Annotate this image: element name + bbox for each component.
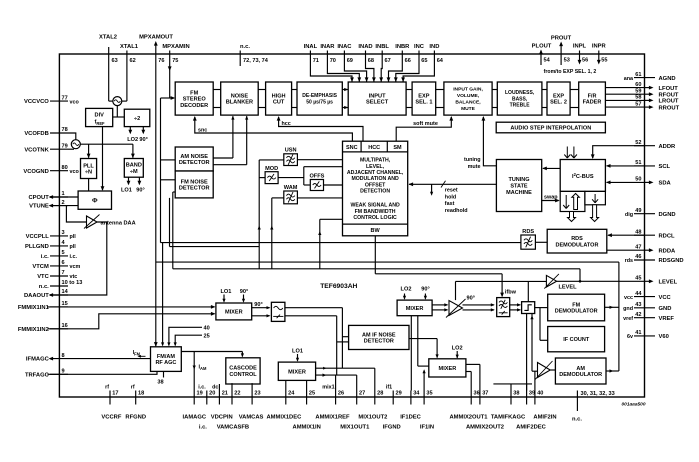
pin 24 bottom lead bbox=[286, 390, 295, 404]
svg-text:6: 6 bbox=[62, 260, 65, 266]
wire AMIF2DEC pin 39 to limiter bottom bbox=[526, 314, 528, 391]
svg-text:readhold: readhold bbox=[445, 208, 468, 214]
svg-text:FM NOISE: FM NOISE bbox=[181, 179, 208, 185]
filter WAM bbox=[284, 185, 298, 204]
block BAND divider bbox=[124, 159, 143, 178]
pin reference stub 38 at AGC bottom bbox=[157, 371, 163, 385]
svg-text:SEL. 2: SEL. 2 bbox=[550, 100, 567, 106]
svg-text:43: 43 bbox=[635, 302, 641, 308]
pin 29 bottom lead bbox=[386, 385, 402, 405]
svg-text:8: 8 bbox=[62, 353, 65, 359]
svg-text:EXP: EXP bbox=[553, 93, 564, 99]
svg-text:FM: FM bbox=[572, 302, 580, 308]
svg-text:AMMIX2OUT1: AMMIX2OUT1 bbox=[449, 415, 488, 421]
svg-text:INAR: INAR bbox=[320, 44, 335, 50]
svg-text:MUTE: MUTE bbox=[461, 106, 476, 112]
wire swap from TSM to I2C bbox=[542, 195, 560, 203]
svg-text:LO2: LO2 bbox=[127, 137, 138, 143]
pin 47 RDDA bbox=[635, 244, 676, 254]
wire F/R fader to audio outputs bbox=[605, 88, 644, 108]
svg-text:90°: 90° bbox=[136, 188, 144, 194]
svg-text:DAAOUT: DAAOUT bbox=[24, 293, 49, 299]
LO2 and 90deg inputs of FM mixer 2 bbox=[401, 287, 430, 300]
LO1 input of AM mixer 1 bbox=[292, 348, 303, 361]
svg-text:snc: snc bbox=[198, 127, 207, 133]
svg-text:VAMCASFB: VAMCASFB bbox=[217, 424, 249, 430]
svg-text:70: 70 bbox=[330, 58, 336, 64]
svg-text:RDSGND: RDSGND bbox=[659, 258, 684, 264]
AM IF amplifier triangle bbox=[535, 361, 553, 380]
wire AGC detector feed from MPX bus bbox=[161, 243, 164, 347]
svg-text:RFGND: RFGND bbox=[125, 415, 146, 421]
svg-text:59: 59 bbox=[635, 88, 641, 94]
svg-text:38: 38 bbox=[513, 390, 519, 396]
svg-text:53: 53 bbox=[564, 58, 570, 64]
wire IF1IN pin 35 riser bbox=[423, 369, 426, 390]
device title TEF6903AH bbox=[320, 283, 357, 290]
svg-text:LROUT: LROUT bbox=[659, 99, 679, 105]
filter MOD bbox=[265, 166, 278, 184]
svg-text:90°: 90° bbox=[240, 289, 248, 295]
svg-text:VAMCAS: VAMCAS bbox=[239, 415, 264, 421]
svg-text:pll: pll bbox=[70, 234, 77, 240]
svg-text:TRFAGC: TRFAGC bbox=[25, 372, 50, 378]
svg-text:VREF: VREF bbox=[659, 316, 675, 322]
wire TAMIFKAGC pin 38 keyed AGC line bbox=[493, 384, 532, 391]
wire RDS demodulator to RDDA bbox=[607, 249, 645, 251]
pin 25 bottom lead bbox=[307, 390, 316, 404]
wire soft mute from SM to input gain block bbox=[396, 116, 453, 141]
svg-text:fREF: fREF bbox=[95, 120, 106, 127]
pin 16 FMMIX1IN2 bbox=[18, 323, 68, 333]
svg-text:PROUT: PROUT bbox=[551, 36, 572, 42]
svg-text:60: 60 bbox=[635, 82, 641, 88]
svg-text:PLOUT: PLOUT bbox=[532, 44, 552, 50]
wire audio chain link bbox=[342, 88, 348, 109]
svg-text:LO1: LO1 bbox=[121, 188, 132, 194]
svg-text:INBR: INBR bbox=[395, 44, 410, 50]
pin 51 SCL bbox=[634, 160, 671, 170]
svg-text:75: 75 bbox=[172, 58, 178, 64]
hollow arrows below I2C sub boxes bbox=[568, 205, 599, 222]
svg-text:AMMIX1IN: AMMIX1IN bbox=[293, 424, 321, 430]
svg-text:67: 67 bbox=[385, 58, 391, 64]
svg-text:38: 38 bbox=[157, 379, 163, 385]
svg-text:VDCPIN: VDCPIN bbox=[211, 415, 233, 421]
svg-text:46: 46 bbox=[635, 254, 641, 260]
wire AM noise detector to noise blanker second bbox=[213, 116, 248, 165]
svg-text:77: 77 bbox=[62, 95, 68, 101]
svg-text:AM IF NOISE: AM IF NOISE bbox=[362, 332, 396, 338]
svg-text:i.c.: i.c. bbox=[70, 254, 78, 260]
svg-text:79: 79 bbox=[62, 143, 68, 149]
bottom pin name IF1DEC bbox=[400, 415, 421, 421]
svg-text:6v: 6v bbox=[627, 334, 633, 340]
wire noise bus from FM noise detector bbox=[170, 198, 260, 247]
svg-text:AMMIX2OUT2: AMMIX2OUT2 bbox=[466, 424, 504, 430]
bottom pin name IF1IN bbox=[420, 424, 434, 430]
pin 62 XTAL1 bbox=[120, 44, 139, 101]
svg-text:5: 5 bbox=[62, 250, 65, 256]
wire level bus from FM noise detector to level line bbox=[173, 192, 580, 281]
svg-text:DE-EMPHASIS: DE-EMPHASIS bbox=[302, 93, 337, 99]
svg-text:MACHINE: MACHINE bbox=[506, 190, 532, 196]
svg-text:CONTROL LOGIC: CONTROL LOGIC bbox=[353, 215, 397, 221]
block de-emphasis bbox=[297, 82, 342, 115]
svg-text:18: 18 bbox=[138, 390, 144, 396]
svg-text:VOLUME,: VOLUME, bbox=[457, 93, 480, 99]
block cascode control bbox=[226, 358, 260, 384]
svg-text:34: 34 bbox=[413, 390, 420, 396]
pin 56 INPL bbox=[573, 44, 588, 65]
block FM mixer 1 bbox=[216, 303, 252, 320]
svg-text:ADJACENT CHANNEL,: ADJACENT CHANNEL, bbox=[347, 170, 404, 176]
svg-text:SNC: SNC bbox=[346, 145, 358, 151]
svg-text:VTC: VTC bbox=[37, 274, 49, 280]
svg-text:IF1IN: IF1IN bbox=[420, 424, 434, 430]
svg-text:vcc: vcc bbox=[624, 295, 633, 301]
pin 38 bottom lead bbox=[511, 390, 520, 404]
wire AMIF2IN pin 40 to AM IF amplifier bbox=[534, 371, 536, 390]
bottom pin name AMMIX1IN bbox=[293, 424, 321, 430]
svg-text:28: 28 bbox=[377, 390, 383, 396]
bottom pin name MIX1OUT2 bbox=[358, 415, 387, 421]
wire level amplifier to LEVEL pin bbox=[557, 280, 645, 282]
svg-text:RDS: RDS bbox=[522, 229, 534, 235]
bottom pin name VAMCASFB bbox=[217, 424, 249, 430]
svg-text:NOISE: NOISE bbox=[231, 93, 249, 99]
svg-text:IFMAGC: IFMAGC bbox=[26, 357, 50, 363]
svg-text:MULTIPATH,: MULTIPATH, bbox=[360, 158, 391, 164]
svg-text:i.c.: i.c. bbox=[199, 424, 207, 430]
wire XTAL1 to oscillator bbox=[122, 100, 127, 102]
svg-text:MIX1OUT1: MIX1OUT1 bbox=[340, 424, 370, 430]
svg-text:RFOUT: RFOUT bbox=[659, 92, 679, 98]
bottom pin name AMMIX1REF bbox=[315, 415, 350, 421]
filter IF1 bbox=[271, 302, 285, 321]
pin 71 INAL bbox=[304, 44, 354, 82]
svg-text:INAD: INAD bbox=[358, 44, 372, 50]
pin 70 INAR bbox=[320, 44, 361, 82]
svg-text:14: 14 bbox=[62, 289, 69, 295]
svg-text:EXP: EXP bbox=[418, 93, 429, 99]
pin 35 bottom lead bbox=[424, 390, 433, 404]
block noise blanker bbox=[221, 82, 259, 115]
svg-text:RF AGC: RF AGC bbox=[155, 360, 176, 366]
svg-text:10 to 13: 10 to 13 bbox=[62, 280, 83, 286]
svg-text:BAND: BAND bbox=[126, 163, 142, 169]
svg-text:2: 2 bbox=[62, 200, 65, 206]
pin 61 AGND bbox=[624, 72, 676, 82]
wire MPXAMIN into FM stereo decoder bbox=[161, 96, 176, 100]
svg-text:FM/AM: FM/AM bbox=[157, 354, 175, 360]
svg-text:DEMODULATOR: DEMODULATOR bbox=[559, 372, 602, 378]
svg-text:rds: rds bbox=[625, 258, 633, 264]
svg-text:78: 78 bbox=[62, 127, 68, 133]
wire WAM input from IF bus bbox=[270, 198, 284, 269]
block FM stereo decoder bbox=[175, 82, 213, 115]
svg-text:LO1: LO1 bbox=[220, 289, 231, 295]
pin 79 VCOTNK bbox=[24, 143, 68, 153]
filter USN bbox=[284, 148, 298, 166]
svg-text:VCOGND: VCOGND bbox=[23, 169, 48, 175]
svg-text:LO1: LO1 bbox=[292, 348, 303, 354]
wire limiter top to level line bbox=[527, 281, 529, 301]
svg-text:USN: USN bbox=[285, 148, 297, 154]
block FM/AM RF AGC bbox=[151, 347, 182, 372]
block RDS demodulator bbox=[547, 229, 607, 253]
svg-text:XTAL2: XTAL2 bbox=[99, 35, 117, 41]
svg-text:if1: if1 bbox=[386, 385, 392, 391]
svg-text:LEVEL: LEVEL bbox=[559, 284, 578, 290]
svg-text:80: 80 bbox=[62, 165, 68, 171]
wire FM noise detector input tap bbox=[161, 179, 176, 181]
block IF count bbox=[548, 327, 605, 352]
svg-text:rf: rf bbox=[131, 385, 135, 391]
svg-text:LOUDNESS,: LOUDNESS, bbox=[505, 90, 535, 96]
wire AMMIX1REF pin 26 bbox=[335, 375, 337, 390]
svg-text:INAC: INAC bbox=[337, 44, 352, 50]
wire audio chain link bbox=[570, 90, 579, 108]
svg-text:HIGH: HIGH bbox=[272, 93, 286, 99]
pin 49 DGND bbox=[625, 208, 676, 218]
LO2 output arrows of divide-by-2 bbox=[128, 127, 145, 135]
svg-text:V60: V60 bbox=[659, 334, 669, 340]
svg-text:VCOTNK: VCOTNK bbox=[24, 147, 49, 153]
svg-text:LO2: LO2 bbox=[401, 287, 412, 293]
svg-text:MIXER: MIXER bbox=[288, 369, 306, 375]
wire TRFAGC to AGC bottom bbox=[48, 371, 158, 374]
svg-text:76: 76 bbox=[158, 58, 164, 64]
bottom pin name AMMIX2OUT2 bbox=[466, 424, 504, 430]
pin 17 bottom lead bbox=[105, 385, 118, 405]
svg-text:TUNING: TUNING bbox=[508, 177, 529, 183]
wire CPOUT to phase detector bbox=[50, 196, 78, 198]
wire AGC to cascode control bbox=[181, 352, 244, 358]
svg-text:45: 45 bbox=[635, 276, 641, 282]
svg-text:AMIF2IN: AMIF2IN bbox=[533, 415, 556, 421]
wire audio chain link bbox=[542, 90, 547, 108]
wire VTUNE to phase detector bbox=[50, 205, 78, 207]
wire oscillator to divider junction bbox=[113, 106, 125, 117]
wire snc from FM stereo decoder to SNC bbox=[193, 116, 353, 141]
svg-text:35: 35 bbox=[426, 390, 432, 396]
filter ifbw bbox=[497, 290, 517, 317]
pin 41 V60 bbox=[627, 330, 669, 340]
svg-text:90°: 90° bbox=[254, 302, 262, 308]
svg-text:30, 31, 32, 33: 30, 31, 32, 33 bbox=[581, 391, 615, 397]
svg-text:CASCODE: CASCODE bbox=[229, 366, 257, 372]
svg-text:90°: 90° bbox=[421, 287, 429, 293]
wire USN to detection block bbox=[297, 159, 342, 161]
junction dot on level output line bbox=[579, 280, 582, 283]
pin 23 bottom lead bbox=[252, 390, 261, 404]
svg-text:42: 42 bbox=[635, 312, 641, 318]
wire audio chain link bbox=[258, 90, 265, 108]
bottom pin name MIX1OUT1 bbox=[340, 424, 370, 430]
block AM mixer 1 bbox=[278, 362, 315, 380]
svg-text:51: 51 bbox=[635, 160, 641, 166]
svg-text:CUT: CUT bbox=[273, 100, 285, 106]
svg-text:7: 7 bbox=[62, 270, 65, 276]
svg-text:AGND: AGND bbox=[659, 76, 676, 82]
svg-text:90°: 90° bbox=[467, 296, 475, 302]
bottom pin name RFGND bbox=[125, 415, 146, 421]
svg-text:SM: SM bbox=[393, 145, 402, 151]
label from/to EXP SEL. 1, 2 bbox=[544, 69, 597, 75]
svg-text:Φ: Φ bbox=[92, 198, 98, 205]
pin 65 INC bbox=[394, 44, 428, 82]
svg-text:LFOUT: LFOUT bbox=[659, 86, 679, 92]
svg-text:DETECTION: DETECTION bbox=[360, 189, 390, 195]
svg-text:MIXER: MIXER bbox=[439, 366, 457, 372]
wire FM mixer 2 bottom to IF1DEC pin 34 bbox=[410, 316, 412, 391]
wire I2C to tuning state machine bbox=[542, 167, 560, 171]
wire IF amplifier to ifbw filter bbox=[463, 303, 495, 311]
wires AM mixer 1 decoupling pins 24 25 bbox=[286, 380, 307, 390]
svg-text:AM: AM bbox=[576, 366, 585, 372]
block exp sel 1 bbox=[412, 82, 436, 115]
svg-text:n.c.: n.c. bbox=[572, 417, 582, 423]
pin 6 VTCM bbox=[32, 260, 80, 270]
svg-text:3: 3 bbox=[62, 230, 65, 236]
pin 9 TRFAGC bbox=[25, 369, 68, 379]
pin 60 LFOUT bbox=[635, 82, 678, 92]
wire FMMIX1IN1 to FM mixer bbox=[48, 305, 216, 309]
svg-text:STATE: STATE bbox=[510, 184, 528, 190]
svg-text:25: 25 bbox=[204, 334, 210, 340]
pin 21 bottom lead bbox=[212, 385, 228, 405]
pin 63 XTAL2 bbox=[99, 35, 118, 102]
pin 2 VTUNE bbox=[29, 200, 68, 210]
bottom pin name AMMIX1DEC bbox=[267, 415, 303, 421]
svg-text:63: 63 bbox=[112, 58, 118, 64]
pin 54 PLOUT bbox=[532, 44, 552, 66]
svg-text:SCL: SCL bbox=[659, 164, 671, 170]
pin 57 RROUT bbox=[635, 101, 679, 111]
pin 44 VCC bbox=[624, 291, 672, 301]
pin 58 LROUT bbox=[635, 95, 679, 105]
svg-text:47: 47 bbox=[635, 244, 641, 250]
I2C sub box right bbox=[585, 191, 606, 204]
svg-text:VCCVCO: VCCVCO bbox=[24, 99, 49, 105]
wire IF filter output A to MIX1OUT2 and AM IF noise detector bbox=[285, 308, 349, 369]
svg-text:OFFSET: OFFSET bbox=[365, 182, 386, 188]
svg-text:BASS,: BASS, bbox=[512, 96, 528, 102]
line arrows above I2C bus bbox=[564, 147, 577, 159]
svg-text:SELECT: SELECT bbox=[366, 100, 389, 106]
svg-text:IND: IND bbox=[429, 44, 439, 50]
block tuning state machine bbox=[496, 160, 541, 212]
svg-text:i.c.: i.c. bbox=[198, 385, 206, 391]
pin 59 RFOUT bbox=[635, 88, 679, 98]
wire WAM to detection block bbox=[297, 197, 342, 199]
svg-text:72, 73, 74: 72, 73, 74 bbox=[243, 58, 269, 64]
svg-text:MIXER: MIXER bbox=[406, 306, 424, 312]
svg-text:DEMODULATOR: DEMODULATOR bbox=[556, 242, 599, 248]
LO1 output arrows of BAND divider bbox=[127, 177, 142, 185]
wire ifbw filter to limiter bbox=[510, 303, 521, 311]
wire IFMAGC from AGC with IFM current label bbox=[68, 350, 151, 358]
svg-text:21: 21 bbox=[222, 390, 228, 396]
svg-text:HCC: HCC bbox=[368, 145, 380, 151]
svg-text:36: 36 bbox=[474, 390, 480, 396]
svg-text:VCC: VCC bbox=[659, 295, 672, 301]
block exp sel 2 bbox=[547, 82, 570, 115]
svg-text:ana: ana bbox=[624, 76, 634, 82]
pin 67 INBL bbox=[375, 44, 390, 82]
svg-text:50: 50 bbox=[635, 177, 641, 183]
wire FM mixer 2 bottom to AM mixer 2 input bbox=[418, 316, 429, 366]
bottom pin name i.c. bbox=[199, 424, 207, 430]
svg-text:n.c.: n.c. bbox=[39, 284, 49, 290]
wire IAM current to IAMAGC pin 19 bbox=[193, 352, 207, 391]
wire detection block lower input from limiter bus bbox=[318, 219, 342, 268]
wire reset control from tuning state machine to detection block bbox=[409, 181, 497, 214]
svg-text:gnd: gnd bbox=[623, 306, 633, 312]
svg-text:DEMODULATOR: DEMODULATOR bbox=[555, 309, 598, 315]
limiter block bbox=[522, 302, 535, 314]
pin 36 bottom lead bbox=[471, 390, 480, 404]
wire SCL into I2C bbox=[606, 164, 645, 168]
block DIV fREF bbox=[86, 108, 113, 126]
wire audio chain link bbox=[492, 90, 497, 108]
svg-text:FMMIX1IN2: FMMIX1IN2 bbox=[18, 327, 49, 333]
svg-text:LEVEL: LEVEL bbox=[659, 280, 678, 286]
svg-text:CONTROL: CONTROL bbox=[229, 372, 257, 378]
crystal oscillator circle bbox=[113, 97, 122, 106]
svg-text:AMMIX1DEC: AMMIX1DEC bbox=[267, 415, 303, 421]
svg-text:rf: rf bbox=[105, 385, 109, 391]
svg-text:90°: 90° bbox=[139, 137, 147, 143]
wire AM IF noise detector output to AM mixer 2 top bbox=[409, 339, 439, 359]
wire RDCL into RDS demodulator bbox=[607, 233, 644, 237]
svg-text:64: 64 bbox=[437, 58, 444, 64]
block divide-by-2 bbox=[124, 109, 150, 126]
wire tuning mute from tuning state machine to input gain block bbox=[464, 116, 496, 170]
wire audio chain link bbox=[292, 90, 297, 108]
pin 27 bottom lead bbox=[357, 390, 366, 404]
block FM noise detector bbox=[175, 171, 213, 198]
svg-text:MIX1OUT2: MIX1OUT2 bbox=[358, 415, 387, 421]
block PLL divider bbox=[81, 159, 97, 179]
svg-text:vref: vref bbox=[623, 316, 633, 322]
pin 10 to 13 n.c. bbox=[39, 280, 83, 290]
IC outer border bbox=[59, 54, 644, 397]
wire AM noise detector input tap bbox=[161, 159, 176, 161]
svg-text:9: 9 bbox=[62, 369, 65, 375]
pin reference stub 25 to AGC bbox=[174, 334, 210, 347]
pin 22 bottom lead bbox=[232, 390, 241, 404]
wire AM mixer 2 output 2 to AMMIX2OUT1 bbox=[466, 372, 471, 391]
svg-text:INC: INC bbox=[414, 44, 425, 50]
svg-text:24: 24 bbox=[288, 390, 295, 396]
svg-text:hcc: hcc bbox=[282, 121, 291, 127]
block F/R fader bbox=[579, 82, 606, 115]
wire FM demodulator output to MPX bus bbox=[605, 306, 619, 309]
block AM noise detector bbox=[175, 147, 213, 171]
svg-text:INPUT: INPUT bbox=[369, 93, 386, 99]
level amplifier triangle bbox=[544, 274, 577, 290]
svg-text:VCOFDB: VCOFDB bbox=[24, 131, 48, 137]
svg-text:44: 44 bbox=[635, 291, 642, 297]
svg-text:DIV: DIV bbox=[95, 113, 105, 119]
wire FM mixer 1 to IF filter bbox=[252, 302, 271, 318]
svg-text:PLL: PLL bbox=[83, 163, 94, 169]
pin 37 bottom lead bbox=[480, 390, 489, 404]
block AM demodulator bbox=[555, 358, 606, 384]
wire IF bus riser to USN input bbox=[259, 159, 284, 161]
